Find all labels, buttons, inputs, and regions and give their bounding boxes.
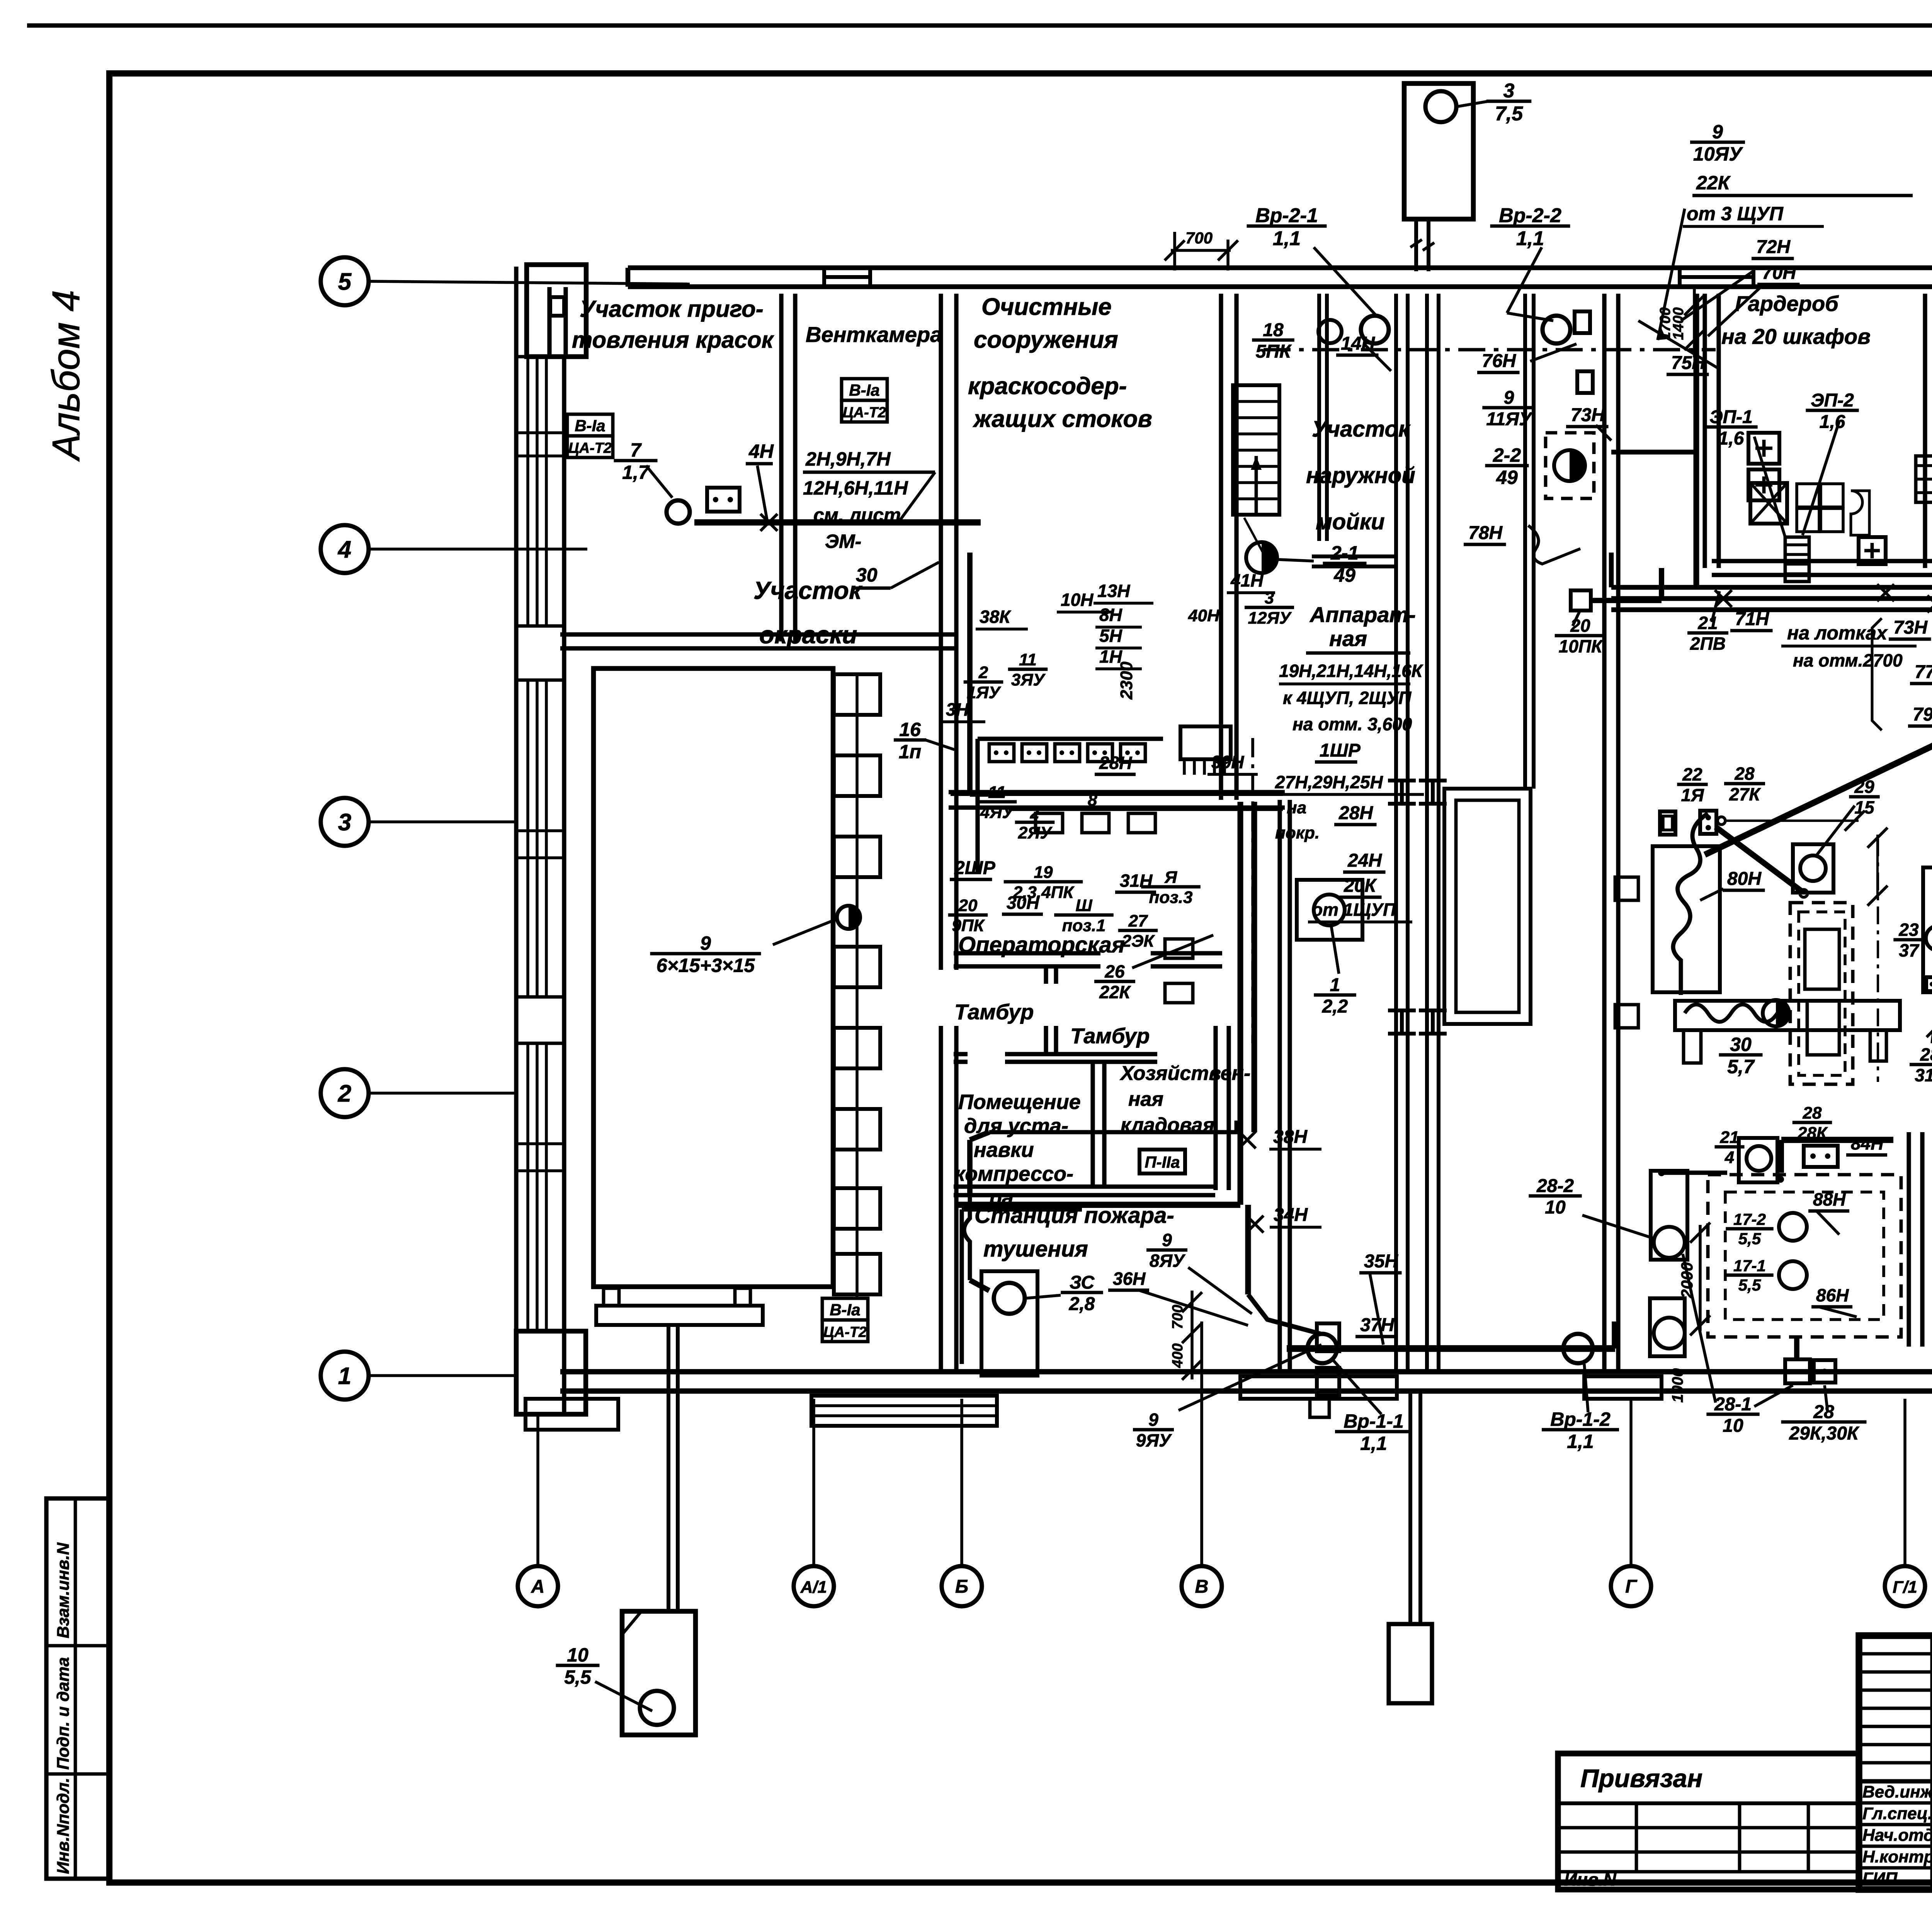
svg-text:1,6: 1,6 (1718, 429, 1744, 449)
svg-text:10: 10 (567, 1644, 588, 1666)
svg-text:1ШР: 1ШР (1320, 740, 1361, 761)
svg-text:к 4ЩУП, 2ЩУП: к 4ЩУП, 2ЩУП (1283, 688, 1412, 708)
svg-text:Участок: Участок (753, 577, 863, 604)
svg-text:39Н: 39Н (1211, 752, 1244, 772)
svg-text:Привязан: Привязан (1580, 1764, 1702, 1793)
svg-text:2-2: 2-2 (1493, 444, 1521, 466)
svg-text:ЦА-Т2: ЦА-Т2 (823, 1324, 867, 1340)
svg-text:навки: навки (974, 1138, 1034, 1162)
svg-text:Вр-2-2: Вр-2-2 (1499, 204, 1561, 227)
svg-text:А: А (531, 1577, 545, 1597)
svg-text:7,5: 7,5 (1495, 102, 1523, 125)
svg-text:жащих стоков: жащих стоков (973, 406, 1152, 432)
svg-text:ЦА-Т2: ЦА-Т2 (568, 440, 612, 456)
svg-text:7: 7 (630, 439, 642, 461)
svg-text:1,1: 1,1 (1567, 1431, 1594, 1452)
svg-text:5,7: 5,7 (1727, 1056, 1755, 1078)
svg-text:4: 4 (337, 536, 351, 563)
svg-text:12ЯУ: 12ЯУ (1248, 609, 1292, 628)
svg-text:3: 3 (338, 809, 351, 836)
svg-text:28: 28 (1813, 1402, 1834, 1422)
svg-text:1Я: 1Я (1681, 785, 1704, 805)
svg-text:см. лист: см. лист (813, 504, 901, 526)
svg-text:ная: ная (1329, 626, 1367, 651)
svg-text:покр.: покр. (1275, 823, 1320, 842)
svg-text:30: 30 (856, 564, 878, 586)
svg-text:В-Iа: В-Iа (575, 417, 605, 435)
svg-text:77: 77 (1915, 662, 1932, 682)
svg-text:6×15+3×15: 6×15+3×15 (656, 955, 755, 976)
svg-text:2ШР: 2ШР (954, 858, 996, 878)
svg-text:1,1: 1,1 (1273, 227, 1301, 250)
svg-text:5,5: 5,5 (564, 1667, 592, 1688)
svg-text:9: 9 (1162, 1230, 1172, 1250)
svg-text:34Н: 34Н (1274, 1205, 1308, 1225)
svg-text:тушения: тушения (983, 1236, 1088, 1262)
svg-text:72Н: 72Н (1756, 237, 1791, 257)
svg-text:10ПК: 10ПК (1559, 636, 1603, 656)
svg-text:11ЯУ: 11ЯУ (1486, 409, 1533, 430)
svg-text:Я: Я (1164, 868, 1177, 887)
svg-text:1,6: 1,6 (1820, 412, 1845, 432)
svg-text:9: 9 (1504, 388, 1514, 408)
svg-text:86Н: 86Н (1816, 1285, 1849, 1305)
svg-text:1400: 1400 (1670, 307, 1687, 340)
svg-text:сооружения: сооружения (974, 327, 1118, 353)
svg-text:49: 49 (1496, 467, 1518, 488)
svg-text:30Н: 30Н (1007, 893, 1039, 913)
svg-text:70Н: 70Н (1762, 263, 1796, 283)
svg-text:28: 28 (1803, 1104, 1822, 1122)
svg-text:9: 9 (700, 932, 711, 954)
svg-text:27: 27 (1128, 912, 1148, 930)
svg-text:Г/1: Г/1 (1893, 1578, 1917, 1597)
svg-text:3: 3 (1503, 80, 1515, 102)
svg-text:80Н: 80Н (1727, 869, 1762, 889)
svg-text:19Н,21Н,14Н,16К: 19Н,21Н,14Н,16К (1279, 661, 1423, 681)
svg-text:2: 2 (338, 1080, 351, 1107)
svg-text:Подп. и дата: Подп. и дата (54, 1657, 73, 1770)
svg-text:18: 18 (1263, 320, 1284, 340)
svg-text:22К: 22К (1099, 982, 1131, 1002)
svg-text:2: 2 (978, 663, 988, 682)
svg-text:В-Iа: В-Iа (849, 381, 879, 399)
svg-text:поз.3: поз.3 (1149, 888, 1193, 907)
svg-text:37: 37 (1899, 940, 1920, 961)
svg-text:5ПК: 5ПК (1256, 342, 1292, 362)
svg-text:Инв.Nподл.: Инв.Nподл. (54, 1778, 73, 1874)
svg-text:окраски: окраски (759, 621, 857, 649)
svg-text:ЗС: ЗС (1070, 1272, 1095, 1293)
svg-text:73Н: 73Н (1893, 617, 1928, 638)
svg-text:2,2: 2,2 (1322, 997, 1348, 1017)
svg-text:В: В (1195, 1577, 1209, 1597)
svg-text:Гл.спец.: Гл.спец. (1862, 1804, 1932, 1823)
svg-text:Взам.инв.N: Взам.инв.N (54, 1542, 73, 1638)
svg-text:1000: 1000 (1669, 1368, 1686, 1403)
svg-text:78Н: 78Н (1468, 523, 1503, 543)
svg-text:Тамбур: Тамбур (954, 1000, 1034, 1024)
svg-text:38К: 38К (980, 607, 1011, 627)
svg-text:3ЯУ: 3ЯУ (1011, 670, 1046, 689)
svg-text:2,8: 2,8 (1069, 1294, 1095, 1315)
svg-text:5,5: 5,5 (1738, 1276, 1761, 1294)
svg-text:1п: 1п (899, 741, 921, 763)
svg-text:8Н: 8Н (1099, 605, 1122, 625)
svg-text:4Н: 4Н (748, 440, 774, 462)
svg-text:28: 28 (1920, 1044, 1932, 1065)
svg-text:30: 30 (1730, 1034, 1752, 1055)
svg-text:35Н: 35Н (1364, 1251, 1398, 1272)
svg-text:700: 700 (1185, 229, 1213, 247)
svg-text:Ш: Ш (1075, 896, 1092, 915)
svg-text:5,5: 5,5 (1738, 1230, 1761, 1248)
svg-text:5: 5 (338, 269, 352, 295)
svg-text:Помещение: Помещение (958, 1090, 1081, 1114)
svg-text:товления красок: товления красок (572, 327, 774, 353)
svg-text:В-Iа: В-Iа (830, 1301, 860, 1319)
svg-text:2-1: 2-1 (1330, 542, 1359, 564)
svg-text:краскосодер-: краскосодер- (968, 373, 1127, 400)
svg-text:ЭМ-: ЭМ- (825, 531, 861, 552)
svg-text:Участок приго-: Участок приго- (580, 296, 764, 322)
svg-text:10ЯУ: 10ЯУ (1693, 143, 1743, 165)
svg-text:28Н: 28Н (1099, 753, 1132, 773)
svg-text:1: 1 (338, 1363, 351, 1389)
svg-text:17-1: 17-1 (1733, 1257, 1766, 1275)
svg-text:мойки: мойки (1316, 509, 1385, 534)
svg-text:16: 16 (899, 719, 921, 740)
svg-text:36Н: 36Н (1113, 1269, 1146, 1289)
svg-text:9: 9 (1148, 1410, 1158, 1430)
svg-text:Б: Б (955, 1577, 968, 1597)
svg-text:10: 10 (1723, 1416, 1743, 1436)
svg-text:Участок: Участок (1312, 417, 1411, 442)
svg-text:Операторская: Операторская (958, 932, 1125, 957)
svg-text:15: 15 (1854, 798, 1875, 818)
svg-text:10: 10 (1545, 1197, 1566, 1218)
svg-text:71Н: 71Н (1735, 609, 1769, 629)
svg-text:4: 4 (1725, 1148, 1734, 1167)
svg-text:2ПВ: 2ПВ (1690, 634, 1726, 654)
svg-text:1,7: 1,7 (622, 462, 650, 483)
svg-text:79: 79 (1913, 704, 1932, 725)
svg-text:1,1: 1,1 (1360, 1433, 1387, 1454)
svg-text:24Н: 24Н (1347, 850, 1382, 871)
svg-text:73Н: 73Н (1571, 405, 1605, 425)
svg-text:Венткамера: Венткамера (806, 322, 942, 347)
svg-text:8ЯУ: 8ЯУ (1150, 1251, 1186, 1271)
svg-text:1: 1 (1330, 975, 1340, 995)
svg-text:37Н: 37Н (1360, 1315, 1395, 1335)
svg-text:от 3 ЩУП: от 3 ЩУП (1687, 203, 1784, 224)
svg-text:наружной: наружной (1306, 463, 1415, 488)
svg-text:28-1: 28-1 (1714, 1394, 1752, 1415)
svg-text:27Н,29Н,25Н: 27Н,29Н,25Н (1275, 772, 1383, 792)
svg-text:38Н: 38Н (1273, 1127, 1308, 1147)
svg-text:ГИП: ГИП (1862, 1869, 1898, 1888)
svg-text:28: 28 (1734, 764, 1755, 784)
svg-text:Вр-1-1: Вр-1-1 (1344, 1410, 1404, 1432)
svg-text:3Н: 3Н (946, 699, 969, 719)
svg-text:А/1: А/1 (800, 1578, 827, 1597)
svg-text:22К: 22К (1696, 172, 1731, 194)
svg-text:11: 11 (1019, 650, 1037, 669)
svg-text:Аппарат-: Аппарат- (1309, 602, 1416, 627)
svg-text:17-2: 17-2 (1733, 1210, 1766, 1228)
svg-text:26: 26 (1104, 961, 1125, 981)
svg-text:ЭП-2: ЭП-2 (1811, 390, 1854, 411)
svg-text:на отм.2700: на отм.2700 (1793, 650, 1903, 670)
svg-text:28-2: 28-2 (1536, 1176, 1574, 1196)
svg-text:3: 3 (1265, 588, 1274, 607)
svg-text:29К,30К: 29К,30К (1789, 1423, 1860, 1444)
svg-text:12Н,6Н,11Н: 12Н,6Н,11Н (803, 477, 908, 499)
svg-text:Вр-2-1: Вр-2-1 (1255, 204, 1318, 227)
svg-text:9ЯУ: 9ЯУ (1136, 1430, 1172, 1451)
svg-text:19: 19 (1034, 863, 1053, 882)
svg-text:ЦА-Т2: ЦА-Т2 (843, 405, 886, 421)
svg-text:на отм. 3,600: на отм. 3,600 (1293, 714, 1412, 734)
svg-text:Г: Г (1625, 1577, 1638, 1597)
svg-text:22: 22 (1682, 764, 1702, 784)
svg-text:31К: 31К (1915, 1065, 1932, 1085)
svg-text:на 20 шкафов: на 20 шкафов (1721, 324, 1871, 349)
svg-text:20: 20 (958, 896, 978, 915)
svg-text:23: 23 (1898, 920, 1919, 940)
svg-text:Нач.отд.: Нач.отд. (1862, 1826, 1932, 1845)
svg-text:1,1: 1,1 (1516, 227, 1544, 250)
svg-text:21: 21 (1720, 1128, 1739, 1147)
svg-text:5Н: 5Н (1099, 626, 1122, 646)
svg-text:13Н: 13Н (1097, 581, 1130, 601)
svg-text:ЭП-1: ЭП-1 (1709, 407, 1753, 427)
svg-text:Инв.N: Инв.N (1564, 1869, 1616, 1889)
svg-text:от 1ЩУП: от 1ЩУП (1312, 900, 1396, 920)
svg-text:Н.контр.: Н.контр. (1862, 1847, 1932, 1866)
svg-text:29: 29 (1854, 777, 1874, 797)
svg-text:на: на (1287, 798, 1306, 817)
svg-text:10Н: 10Н (1061, 590, 1094, 610)
svg-text:Вед.инж.: Вед.инж. (1862, 1782, 1932, 1801)
svg-text:ная: ная (1128, 1088, 1163, 1111)
svg-text:2Н,9Н,7Н: 2Н,9Н,7Н (805, 448, 891, 470)
svg-text:76Н: 76Н (1482, 351, 1516, 371)
svg-text:Тамбур: Тамбур (1070, 1024, 1150, 1048)
svg-text:2300: 2300 (1117, 662, 1136, 700)
svg-text:Вр-1-2: Вр-1-2 (1550, 1408, 1611, 1430)
svg-text:28Н: 28Н (1338, 803, 1373, 823)
svg-text:400: 400 (1170, 1344, 1186, 1368)
svg-text:75Н: 75Н (1671, 353, 1706, 373)
svg-text:27К: 27К (1729, 784, 1761, 804)
svg-text:Хозяйствен-: Хозяйствен- (1119, 1062, 1250, 1085)
svg-text:П-IIа: П-IIа (1145, 1153, 1180, 1171)
svg-text:Альбом 4: Альбом 4 (44, 290, 88, 462)
svg-text:700: 700 (1170, 1305, 1186, 1329)
svg-text:84Н: 84Н (1851, 1133, 1884, 1153)
svg-text:9: 9 (1712, 121, 1723, 143)
svg-text:88Н: 88Н (1813, 1189, 1846, 1209)
svg-text:40Н: 40Н (1188, 606, 1220, 625)
svg-text:2ЭК: 2ЭК (1121, 932, 1155, 951)
svg-text:Очистные: Очистные (981, 294, 1112, 320)
svg-text:49: 49 (1333, 565, 1355, 586)
